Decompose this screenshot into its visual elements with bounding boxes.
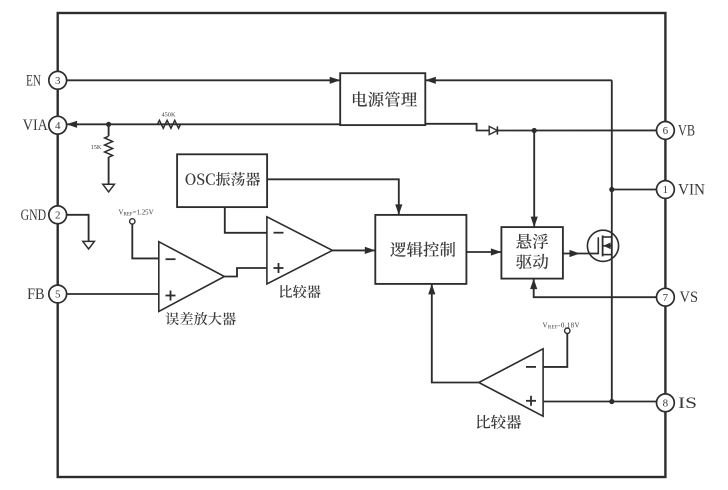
wire VIN pin1 to rail	[612, 189, 657, 191]
svg-text:IS: IS	[678, 395, 697, 412]
label 比较器 (PWM comparator)	[280, 285, 321, 298]
wire VIA net (pin4 to power-management)	[67, 123, 341, 125]
pin 7 VS circle	[657, 288, 675, 306]
arrow into 电源管理 left	[330, 77, 341, 84]
wire OSC to logic-control top	[267, 179, 399, 215]
U3 plus sign	[526, 400, 536, 402]
wire diode to VB pin	[497, 129, 656, 131]
svg-text:EN: EN	[26, 72, 41, 89]
resistor R1 450K	[158, 120, 181, 128]
U2 plus sign	[274, 267, 284, 269]
block: logic control 逻辑控制	[375, 215, 466, 284]
wire U3 output to logic-control bottom	[432, 284, 479, 383]
comparator U3 triangle	[479, 349, 543, 416]
U1 plus sign	[166, 295, 176, 297]
arrow into logic-control bottom	[428, 284, 435, 295]
arrow into VIA pin	[67, 121, 78, 128]
node junction VIN	[609, 187, 614, 192]
block: floating driver 悬浮驱动	[501, 227, 563, 279]
wire 15K down	[108, 124, 110, 136]
pin 8 IS circle	[657, 394, 675, 412]
svg-text:8: 8	[663, 398, 669, 410]
node junction IS/rail	[609, 399, 614, 404]
pin 1 VIN circle	[657, 181, 675, 199]
label 误差放大器	[166, 312, 236, 325]
label 电源管理	[353, 92, 417, 107]
svg-text:VIA: VIA	[23, 117, 48, 134]
wire logic-control to floating-driver	[466, 251, 501, 253]
U2 minus sign	[274, 232, 284, 234]
wire FB pin5 to U1 plus input	[67, 293, 159, 295]
svg-text:5: 5	[55, 289, 61, 301]
wire power-management right input	[425, 79, 612, 81]
svg-text:VB: VB	[678, 122, 695, 139]
node VREF-0.18V terminal	[565, 328, 570, 333]
svg-text:15K: 15K	[91, 144, 102, 151]
Q1 drain stub	[603, 236, 612, 238]
Q1 body arrow	[603, 245, 612, 247]
wire VREF to U1 minus input	[132, 224, 159, 258]
comparator U2 triangle	[267, 217, 333, 284]
label 比较器 (current comparator)	[477, 415, 521, 429]
svg-text:VIN: VIN	[678, 182, 705, 199]
Q1 channel bar	[602, 235, 604, 256]
ground for R2	[103, 184, 115, 192]
node junction VIA/15K	[106, 122, 111, 127]
svg-text:GND: GND	[21, 207, 46, 224]
pin 5 FB circle	[49, 285, 67, 303]
label 逻辑控制	[390, 242, 455, 257]
pin 6 VB circle	[657, 121, 675, 139]
arrow into logic-control left	[365, 247, 376, 254]
arrow into 悬浮驱动 bottom	[530, 279, 537, 290]
wire VS pin7 to 悬浮驱动 bottom	[534, 279, 657, 298]
svg-text:1: 1	[663, 184, 669, 196]
arrow on gate wire	[570, 250, 581, 257]
wire VREF to U3 minus input	[543, 334, 567, 367]
block: power management 电源管理	[340, 73, 425, 125]
svg-text:3: 3	[55, 75, 61, 87]
Q1 source stub	[603, 254, 612, 256]
diode D1	[489, 126, 497, 134]
label 悬浮 (line 1)	[516, 234, 548, 249]
wire OSC to U2 minus input	[225, 207, 267, 233]
IC boundary box	[58, 13, 666, 477]
arrow into 悬浮驱动 top	[531, 217, 538, 228]
U3 minus sign	[526, 366, 536, 368]
resistor R2 15K	[105, 136, 113, 157]
pin 4 VIA circle	[49, 116, 67, 134]
pin 3 EN circle	[49, 71, 67, 89]
label OSC振荡器	[186, 172, 261, 186]
wire U1 output to U2 plus input	[224, 268, 267, 277]
pin 2 GND circle	[49, 206, 67, 224]
block: OSC oscillator OSC振荡器	[177, 154, 267, 207]
label 驱动 (line 2)	[516, 254, 548, 269]
transistor Q1 MOSFET circle	[587, 230, 618, 261]
ground for GND pin	[83, 241, 95, 249]
wire VIN rail vertical	[611, 80, 613, 401]
svg-text:VS: VS	[680, 289, 699, 306]
wire EN pin3 to power-management	[67, 79, 341, 81]
node junction VB/driver	[532, 128, 537, 133]
svg-text:4: 4	[55, 120, 61, 132]
svg-text:450K: 450K	[162, 112, 176, 119]
svg-text:7: 7	[663, 292, 669, 304]
arrow into 悬浮驱动 left	[491, 248, 502, 255]
wire VB net from power-management	[425, 124, 489, 131]
U1 minus sign	[166, 258, 176, 260]
svg-text:2: 2	[55, 210, 61, 222]
wire IS pin8 to U3 plus input	[543, 401, 656, 403]
wire VB junction down to 悬浮驱动 top	[533, 131, 535, 228]
svg-text:6: 6	[663, 125, 669, 137]
node VREF=1.25V terminal	[130, 219, 135, 224]
wire GND pin2 stub	[67, 215, 89, 242]
arrow into logic-control top	[395, 204, 402, 215]
op-amp U1 error amplifier triangle	[159, 242, 225, 312]
Q1 gate bar	[597, 237, 599, 254]
arrow into 电源管理 right	[425, 77, 436, 84]
wire U2 output to logic-control	[332, 249, 375, 251]
svg-text:FB: FB	[27, 286, 44, 303]
wire floating-driver to Q1 gate	[563, 253, 598, 255]
